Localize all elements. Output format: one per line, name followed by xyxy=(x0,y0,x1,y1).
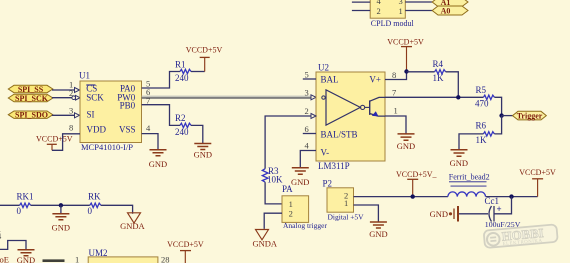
svg-text:8: 8 xyxy=(69,123,73,133)
resistor RK xyxy=(88,192,102,216)
transistor inside U2 xyxy=(365,97,385,116)
svg-text:A0: A0 xyxy=(441,7,451,16)
node VCC/R4 junction xyxy=(404,69,408,73)
svg-text:R1: R1 xyxy=(175,60,186,70)
wire SPI_SCK to U1 xyxy=(52,97,72,99)
comparator triangle xyxy=(322,90,365,125)
pin arrow U2 pin3 xyxy=(311,95,316,100)
svg-text:6: 6 xyxy=(305,124,309,134)
pin 2 clock bubble xyxy=(72,96,76,100)
svg-text:GND: GND xyxy=(149,159,167,169)
wire VCC to pin 8 xyxy=(52,134,80,151)
wire corner to GND xyxy=(0,241,26,250)
svg-text:UM2: UM2 xyxy=(89,248,108,258)
svg-text:GND: GND xyxy=(369,229,387,239)
wire RK1 to junction xyxy=(31,204,90,206)
svg-text:1: 1 xyxy=(75,254,79,263)
wire SPI_SDO to U1 xyxy=(52,114,75,116)
svg-text:2: 2 xyxy=(69,88,73,98)
svg-text:R5: R5 xyxy=(476,85,487,95)
node R4/pin7 junction xyxy=(456,95,460,99)
svg-text:GND: GND xyxy=(17,255,35,263)
pin name CS with overline xyxy=(86,83,97,93)
wire R2 to GND xyxy=(191,125,203,143)
svg-text:Trigger: Trigger xyxy=(517,111,543,120)
pin 4 wire V- to GND xyxy=(300,140,316,167)
svg-text:2: 2 xyxy=(305,106,309,116)
ground GNDA left xyxy=(120,213,145,231)
svg-text:U1: U1 xyxy=(79,71,90,81)
svg-text:10K: 10K xyxy=(267,174,283,184)
svg-text:RK: RK xyxy=(88,192,101,202)
resistor R4 xyxy=(407,59,446,83)
svg-text:U2: U2 xyxy=(318,62,329,72)
svg-text:3: 3 xyxy=(69,106,73,116)
svg-text:1: 1 xyxy=(399,6,403,16)
connector P2 box xyxy=(323,178,365,221)
pin arrow 1 xyxy=(75,88,80,93)
svg-text:VDD: VDD xyxy=(87,125,107,135)
svg-text:1K: 1K xyxy=(433,73,445,83)
power VCCD+5V at U1 pin 8 xyxy=(36,134,73,150)
IC U2 LM311P box xyxy=(316,62,385,161)
svg-text:8: 8 xyxy=(392,70,396,80)
resistor R6 xyxy=(476,120,495,145)
svg-text:SPI_SCK: SPI_SCK xyxy=(15,94,49,103)
wire R5 to trigger node xyxy=(494,97,501,115)
power VCCD+5V above R1 xyxy=(186,45,223,71)
wire xyxy=(405,10,432,12)
pin 5 stub xyxy=(303,69,316,79)
wire pin5 to R1 xyxy=(142,72,180,89)
resistor R5 xyxy=(475,85,494,108)
pin arrow 2 xyxy=(76,95,81,100)
svg-text:1: 1 xyxy=(344,198,348,208)
port SPI_SDO xyxy=(8,111,53,120)
power VCCD+5V right xyxy=(519,168,556,197)
svg-text:R2: R2 xyxy=(175,113,186,123)
ground corner xyxy=(17,250,35,263)
wire PA pin2 to GNDA xyxy=(264,213,282,229)
wire R4 down to pin7 net xyxy=(446,72,459,98)
svg-text:VCCD+5V: VCCD+5V xyxy=(387,37,424,46)
svg-text:PA: PA xyxy=(282,184,293,194)
svg-text:VCCD+5V: VCCD+5V xyxy=(36,134,73,143)
resistor R1 xyxy=(175,60,191,83)
port Trigger xyxy=(513,111,547,120)
svg-text:GNDA: GNDA xyxy=(253,238,278,248)
svg-text:240: 240 xyxy=(175,127,189,137)
ground under P2 xyxy=(369,222,387,239)
pin arrow 3 xyxy=(75,113,80,118)
svg-text:oE: oE xyxy=(0,255,9,263)
ground under R2 xyxy=(194,144,212,160)
wire node down to cap xyxy=(494,197,512,214)
wire SPI_SS to U1 xyxy=(52,89,75,91)
svg-text:V-: V- xyxy=(321,148,330,158)
ground under R6 xyxy=(450,150,468,168)
ground at U2 pin1 xyxy=(397,134,415,151)
pin 2 wire to R3 xyxy=(265,106,316,169)
svg-text:+: + xyxy=(497,204,502,214)
svg-text:VCCD+5V: VCCD+5V xyxy=(519,168,556,177)
svg-text:240: 240 xyxy=(175,73,189,83)
svg-text:2: 2 xyxy=(377,6,381,16)
resistor R3 xyxy=(262,166,283,185)
svg-text:SPI_SDO: SPI_SDO xyxy=(15,111,48,120)
wire P2 pin2 to rail xyxy=(354,196,448,198)
pin 6 stub xyxy=(303,124,316,134)
port A1 xyxy=(432,0,468,7)
resistor RK1 xyxy=(17,192,34,216)
svg-text:Ferrit_bead2: Ferrit_bead2 xyxy=(449,173,490,182)
svg-text:SPI_SS: SPI_SS xyxy=(18,85,44,94)
wire PW0 to U2 pin3 (gray net) xyxy=(142,97,312,99)
wire R6 left to GND xyxy=(459,134,483,150)
svg-text:470: 470 xyxy=(475,98,489,108)
resistor R2 xyxy=(175,113,191,137)
svg-text:3: 3 xyxy=(305,88,309,98)
pin 8 wire to VCC node xyxy=(385,70,407,80)
node rail junction xyxy=(509,194,513,198)
svg-text:CPLD modul: CPLD modul xyxy=(371,19,415,28)
wire bead to VCC node xyxy=(486,196,538,198)
svg-text:GND: GND xyxy=(450,158,468,168)
svg-text:28: 28 xyxy=(161,255,170,263)
watermark HOBBI elektronika xyxy=(484,224,558,248)
wire RK to GNDA xyxy=(101,205,133,213)
pin 7 wire xyxy=(385,88,483,98)
svg-text:V+: V+ xyxy=(369,75,381,85)
svg-text:7: 7 xyxy=(146,95,150,105)
wire xyxy=(405,1,432,3)
IC UM2 box xyxy=(88,248,158,263)
svg-text:R4: R4 xyxy=(433,59,444,69)
ground at U2 V- xyxy=(291,168,309,187)
ground under U1 xyxy=(149,150,167,169)
ground GNDA under PA xyxy=(253,230,278,249)
svg-text:SI: SI xyxy=(87,110,95,120)
port SPI_SS xyxy=(8,85,53,94)
svg-text:VSS: VSS xyxy=(119,125,136,135)
svg-text:P2: P2 xyxy=(323,178,333,188)
svg-text:SCK: SCK xyxy=(86,93,104,103)
connector PA box xyxy=(282,184,327,230)
connector CPLD modul box xyxy=(370,0,414,28)
svg-text:GND: GND xyxy=(291,177,309,187)
wire pin7 to R2 xyxy=(142,105,180,126)
port SPI_SCK xyxy=(8,94,53,103)
svg-text:BAL/STB: BAL/STB xyxy=(321,130,358,140)
capacitor Cc1 xyxy=(485,196,521,229)
pin 1 wire to GND xyxy=(385,106,406,134)
wire VSS to GND xyxy=(142,134,158,150)
svg-text:GND: GND xyxy=(397,141,415,151)
svg-text:0: 0 xyxy=(17,206,22,216)
svg-text:2: 2 xyxy=(289,208,293,218)
svg-text:RK1: RK1 xyxy=(17,192,34,202)
IC U1 MCP41010 box xyxy=(79,71,142,143)
wire xyxy=(352,10,370,12)
wire thick bus stub xyxy=(43,259,65,262)
svg-text:PB0: PB0 xyxy=(120,100,136,110)
svg-text:BAL: BAL xyxy=(321,75,339,85)
ground under RK junction xyxy=(52,205,70,232)
node trigger junction xyxy=(499,113,503,117)
svg-text:GND: GND xyxy=(52,222,70,232)
wire R1 to VCC xyxy=(191,71,205,73)
inductor Ferrit_bead2 xyxy=(448,173,490,197)
svg-text:1K: 1K xyxy=(476,135,488,145)
wire cap to GND bar xyxy=(459,213,488,215)
wire to Trigger port xyxy=(502,115,513,117)
port A0 xyxy=(432,6,468,16)
svg-text:GND: GND xyxy=(194,150,212,160)
svg-text:GNDA: GNDA xyxy=(120,221,145,231)
svg-text:5: 5 xyxy=(305,69,309,79)
node VCC_ junction xyxy=(411,194,415,198)
power VCCD+5V bottom xyxy=(167,240,204,263)
power VCCD+5V_ xyxy=(396,170,438,197)
svg-text:VCCD+5V: VCCD+5V xyxy=(186,45,223,54)
svg-text:7: 7 xyxy=(392,88,396,98)
svg-text:VCCD+5V: VCCD+5V xyxy=(167,240,204,249)
wire RK rail xyxy=(0,204,20,206)
svg-text:Analog trigger: Analog trigger xyxy=(283,221,327,230)
power VCCD+5V above U2 xyxy=(387,37,424,71)
svg-text:LM311P: LM311P xyxy=(318,161,350,171)
power GND bar style xyxy=(430,206,458,222)
svg-text:R6: R6 xyxy=(476,120,487,130)
svg-text:0: 0 xyxy=(88,206,93,216)
wire P2 pin1 to GND xyxy=(354,205,379,222)
svg-text:GND: GND xyxy=(430,209,448,219)
svg-text:1: 1 xyxy=(394,106,398,116)
svg-text:MCP41010-I/P: MCP41010-I/P xyxy=(81,142,133,152)
node RK junction xyxy=(59,203,63,207)
svg-text:Digital +5V: Digital +5V xyxy=(328,213,365,222)
svg-text:VCCD+5V_: VCCD+5V_ xyxy=(396,170,438,179)
wire R3 to PA pin1 xyxy=(265,182,282,204)
wire xyxy=(352,1,370,3)
wire R6 up to trigger node xyxy=(494,116,501,134)
